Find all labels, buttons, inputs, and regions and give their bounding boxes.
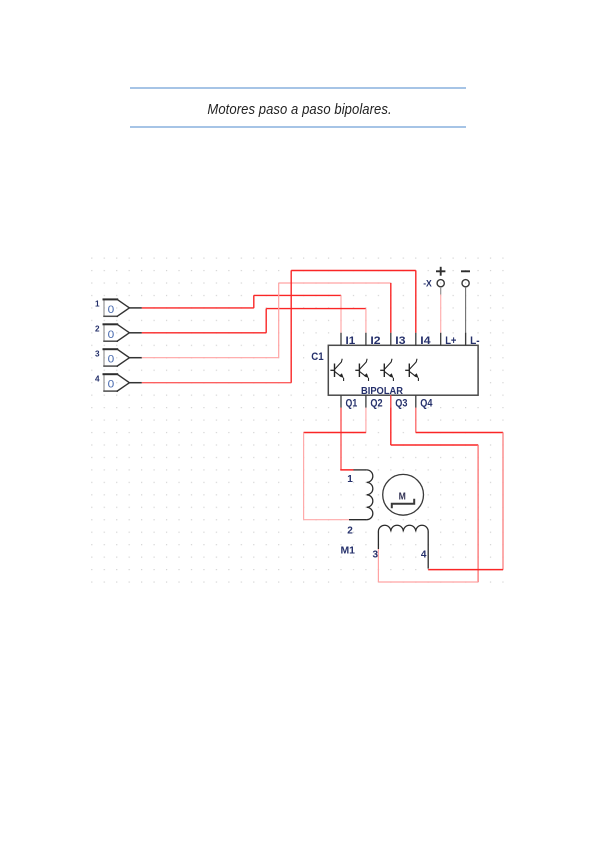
svg-text:I1: I1	[346, 335, 356, 347]
svg-text:M: M	[399, 490, 406, 502]
wire net1 segment: vertical jog	[253, 295, 255, 308]
wire net2 segment: input2 horizontal	[142, 332, 266, 334]
svg-text:Q4: Q4	[420, 397, 432, 409]
wire net4 segment: input4 horizontal	[142, 382, 291, 384]
wire net3 segment: upper horizontal to I3	[279, 282, 391, 284]
wire Q1 segment: drop from Q1 pin	[340, 408, 342, 470]
wire net3 segment: drop to I3 pin	[390, 283, 392, 333]
pin tick L+	[440, 333, 442, 346]
input connector 3	[104, 349, 130, 366]
dotted grid background	[91, 257, 504, 583]
wire Q2 segment: horizontal into coil terminal 2	[304, 519, 349, 521]
pin tick I4	[415, 333, 417, 346]
input 1 lead stub	[129, 307, 141, 309]
transistor T2 inside C1	[355, 359, 368, 381]
pin tick Q3	[390, 395, 392, 408]
wire L- segment: gray drop to L- pin	[465, 287, 467, 345]
transistor T1 inside C1	[330, 359, 343, 381]
wire L+ segment: gray below + circle	[440, 287, 442, 295]
pin tick Q2	[365, 395, 367, 408]
bottom rule	[130, 126, 466, 128]
svg-text:Q2: Q2	[370, 397, 382, 409]
transistor T4 inside C1	[405, 359, 418, 381]
PLC box C1 outline	[328, 345, 478, 395]
input 3 lead stub	[129, 357, 141, 359]
pin tick I2	[365, 333, 367, 346]
wire net4 segment: vertical jog	[290, 271, 292, 383]
svg-text:L-: L-	[470, 335, 480, 347]
transistor T3 inside C1	[380, 359, 393, 381]
wire net1 segment: upper horizontal to I1	[254, 294, 341, 296]
input 2 lead stub	[129, 332, 141, 334]
wire Q4 segment: horizontal into coil terminal 4	[428, 569, 503, 571]
svg-text:BIPOLAR: BIPOLAR	[361, 386, 404, 397]
wire net4 segment: drop to I4 pin	[415, 271, 417, 333]
svg-text:L+: L+	[445, 335, 456, 347]
svg-text:1: 1	[95, 300, 100, 309]
wire net2 segment: vertical jog	[265, 309, 267, 333]
motor symbol underline	[392, 499, 414, 509]
power terminal -X plus symbol	[436, 267, 445, 276]
wire net2 segment: upper horizontal to I2	[266, 308, 366, 310]
svg-text:0: 0	[108, 379, 115, 391]
svg-text:M1: M1	[341, 546, 356, 557]
svg-text:2: 2	[95, 325, 100, 334]
svg-text:0: 0	[108, 304, 115, 316]
wire Q2 segment: drop from Q2 pin	[365, 408, 367, 433]
input connector 4	[104, 374, 130, 391]
svg-text:Q1: Q1	[346, 397, 358, 409]
wire Q3 segment: drop from Q3 pin	[390, 408, 392, 445]
pin tick I1	[340, 333, 342, 346]
power terminal minus symbol	[461, 270, 470, 272]
wire Q3 segment: bottom horizontal	[378, 581, 478, 583]
pin tick Q4	[415, 395, 417, 408]
wire net4 segment: upper horizontal to I4	[291, 270, 416, 272]
motor M1 winding 3-4 (horizontal coil)	[378, 525, 428, 568]
svg-text:4: 4	[95, 374, 100, 383]
wire net2 segment: drop to I2 pin	[365, 309, 367, 333]
svg-text:2: 2	[347, 526, 353, 537]
input connector 2	[104, 324, 130, 341]
transistor T1 emitter arrowhead	[339, 373, 344, 378]
wire Q1 segment: corner into coil terminal 1	[340, 468, 353, 471]
wire net1 segment: input1 horizontal	[142, 307, 254, 309]
wire Q2 segment: horizontal left	[304, 432, 366, 434]
wire Q4 segment: drop from Q4 pin	[415, 408, 417, 433]
transistor T3 emitter arrowhead	[389, 373, 394, 378]
wire Q2 segment: vertical down left side	[303, 433, 305, 520]
svg-text:3: 3	[95, 349, 100, 358]
wire net3 segment: vertical jog	[278, 283, 280, 358]
svg-text:0: 0	[108, 329, 115, 341]
svg-text:4: 4	[421, 550, 427, 561]
wire L+ segment: pink drop to L+ pin	[440, 295, 442, 333]
pin tick I3	[390, 333, 392, 346]
svg-text:C1: C1	[311, 351, 323, 363]
svg-text:3: 3	[372, 550, 378, 561]
title text	[40, 101, 560, 118]
pin tick L-	[465, 333, 467, 346]
transistor T4 emitter arrowhead	[414, 373, 419, 378]
wire Q3 segment: horizontal right	[391, 444, 478, 446]
power terminal circle +	[437, 280, 444, 287]
svg-text:Q3: Q3	[395, 397, 407, 409]
input connector 1	[104, 299, 130, 316]
svg-text:I3: I3	[395, 335, 405, 347]
top rule	[130, 87, 466, 89]
wire Q4 segment: vertical down far right	[502, 433, 504, 570]
power terminal circle -	[462, 280, 469, 287]
input 4 lead stub	[129, 382, 141, 384]
transistor T2 emitter arrowhead	[364, 373, 369, 378]
wire Q4 segment: horizontal right	[416, 432, 503, 434]
svg-text:I4: I4	[420, 335, 430, 347]
motor M1 winding 1-2 (vertical coil)	[349, 470, 373, 520]
wire Q3 segment: rise to coil terminal 3	[377, 549, 379, 582]
svg-text:0: 0	[108, 354, 115, 366]
svg-text:I2: I2	[370, 335, 380, 347]
wire net1 segment: drop to I1 pin	[340, 295, 342, 332]
pin tick Q1	[340, 395, 342, 408]
wire net3 segment: input3 horizontal	[142, 357, 279, 359]
motor M1 circle	[383, 474, 424, 515]
svg-text:-X: -X	[423, 279, 432, 290]
wire Q3 segment: vertical down right side	[477, 445, 479, 582]
svg-text:1: 1	[347, 474, 353, 485]
